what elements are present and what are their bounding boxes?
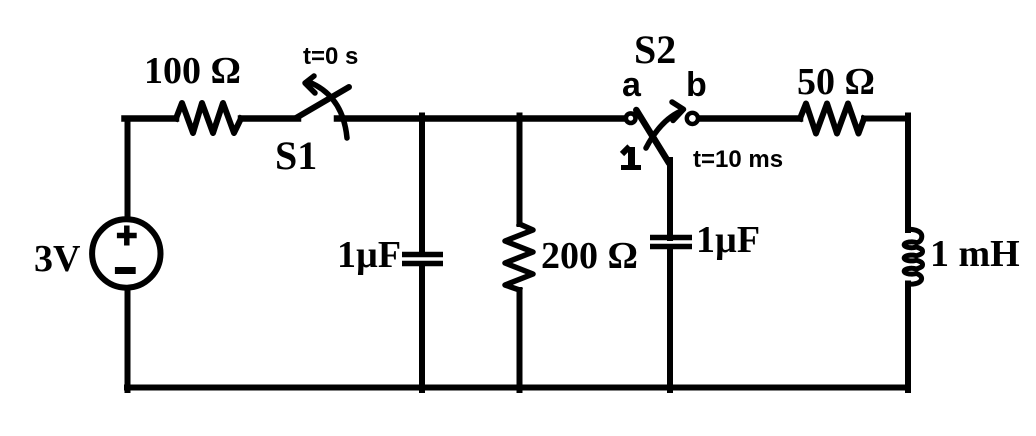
svg-text:t=0 s: t=0 s (303, 43, 358, 70)
svg-text:1µF: 1µF (337, 234, 401, 276)
svg-text:S1: S1 (275, 133, 317, 178)
svg-text:1 mH: 1 mH (930, 233, 1020, 275)
svg-text:3V: 3V (34, 238, 81, 280)
svg-text:t=10 ms: t=10 ms (693, 146, 783, 173)
svg-text:200 Ω: 200 Ω (541, 235, 638, 277)
svg-text:50 Ω: 50 Ω (797, 61, 875, 103)
svg-text:100 Ω: 100 Ω (144, 50, 241, 92)
svg-text:1µF: 1µF (696, 219, 760, 261)
svg-text:b: b (686, 66, 707, 104)
svg-text:a: a (622, 66, 642, 104)
